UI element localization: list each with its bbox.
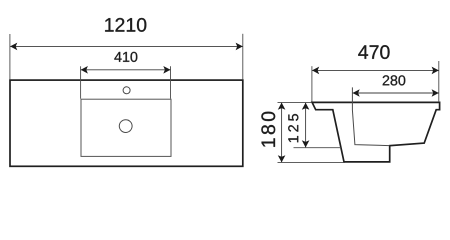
dim 125 arrow top: [302, 103, 310, 110]
dim 410 arrow right: [163, 66, 170, 74]
side-view basin profile outline: [312, 102, 440, 161]
side-view inner bowl wall line: [352, 87, 389, 145]
dim 410 label: [114, 52, 137, 62]
dim 180 dimension line: [281, 103, 283, 162]
dim 180/125 top extension line: [278, 101, 312, 103]
dim 125 bottom extension line: [294, 147, 342, 149]
dim 180 arrow bottom: [278, 155, 286, 162]
dim 125 label: [288, 114, 298, 142]
dim 1210 extension line left: [9, 34, 11, 79]
dim 470 arrow right: [432, 67, 439, 75]
dim 280 arrow left: [353, 89, 360, 97]
dim 470/280 extension line right: [438, 61, 440, 102]
dim 280 arrow right: [432, 89, 439, 97]
drain circle: [119, 120, 132, 133]
dim 470 dimension line: [312, 69, 439, 71]
basin bowl inner rectangle: [81, 99, 171, 156]
dim 1210 extension line right: [242, 34, 244, 80]
dim 180 label: [261, 112, 275, 147]
dim 410 extension line left: [80, 66, 82, 98]
dim 470 arrow left: [312, 67, 319, 75]
dim 410 arrow left: [81, 66, 88, 74]
dim 280 label: [383, 75, 406, 85]
dim 1210 label: [105, 18, 146, 32]
basin front-view outer rectangle: [10, 80, 243, 166]
dim 1210 arrow left: [10, 43, 17, 51]
dim 180 arrow top: [278, 103, 286, 110]
dim 280 dimension line: [353, 92, 439, 94]
dim 125 dimension line: [305, 103, 307, 147]
dim 410 extension line right: [170, 66, 172, 98]
dim 470 label: [358, 45, 389, 59]
dim 470 extension line left: [311, 66, 313, 101]
dim 125 arrow bottom: [302, 140, 310, 147]
dim 1210 dimension line: [10, 45, 243, 47]
dim 180 bottom extension line: [278, 162, 346, 164]
faucet hole circle: [123, 87, 130, 94]
dim 1210 arrow right: [236, 43, 243, 51]
dim 410 dimension line: [81, 69, 171, 71]
